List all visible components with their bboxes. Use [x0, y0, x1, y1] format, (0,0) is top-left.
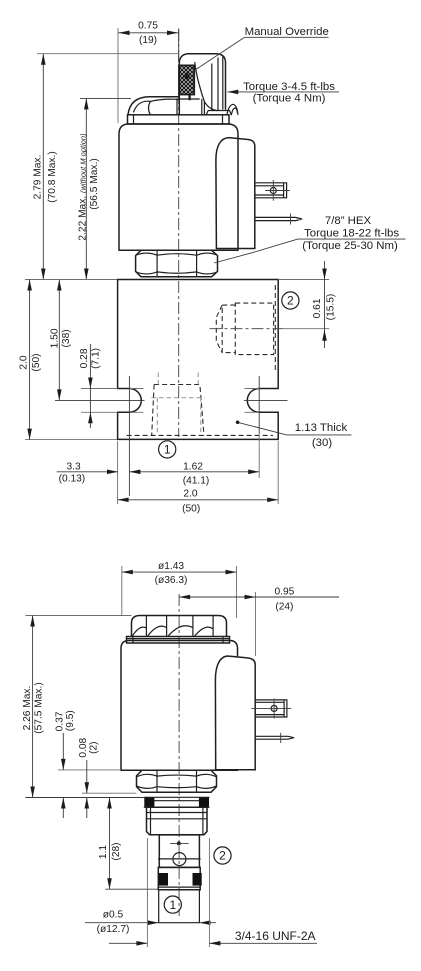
svg-text:(7.1): (7.1)	[91, 348, 102, 369]
svg-text:(38): (38)	[61, 329, 72, 347]
svg-text:(30): (30)	[312, 437, 332, 449]
svg-text:2.0: 2.0	[183, 489, 197, 500]
svg-text:(9.5): (9.5)	[65, 710, 76, 731]
svg-text:(28): (28)	[111, 842, 122, 860]
svg-text:(70.8 Max.): (70.8 Max.)	[47, 151, 58, 203]
svg-text:Torque 18-22 ft-lbs: Torque 18-22 ft-lbs	[304, 227, 399, 239]
svg-text:2.26 Max.: 2.26 Max.	[22, 686, 33, 731]
svg-text:(Torque 4 Nm): (Torque 4 Nm)	[253, 92, 326, 104]
svg-text:Torque 3-4.5 ft-lbs: Torque 3-4.5 ft-lbs	[243, 81, 335, 93]
svg-text:2.0: 2.0	[19, 355, 30, 369]
svg-text:0.95: 0.95	[274, 586, 294, 597]
svg-text:(19): (19)	[139, 35, 157, 46]
svg-text:1: 1	[164, 443, 171, 457]
svg-text:0.08: 0.08	[78, 737, 89, 757]
svg-text:0.75: 0.75	[138, 21, 158, 32]
svg-text:1: 1	[169, 898, 176, 912]
svg-text:0.61: 0.61	[312, 298, 323, 318]
svg-text:(Torque 25-30 Nm): (Torque 25-30 Nm)	[302, 240, 398, 252]
svg-text:(56.5 Max.): (56.5 Max.)	[89, 158, 100, 210]
svg-text:2.22 Max. (without M option): 2.22 Max. (without M option)	[78, 133, 89, 241]
svg-text:2.79 Max.: 2.79 Max.	[33, 155, 44, 200]
svg-text:1.50: 1.50	[50, 328, 61, 348]
svg-text:(57.5 Max.): (57.5 Max.)	[34, 682, 45, 734]
svg-text:0.28: 0.28	[79, 348, 90, 368]
svg-text:(50): (50)	[31, 353, 42, 371]
svg-text:ø0.5: ø0.5	[103, 910, 124, 921]
svg-text:0.37: 0.37	[54, 711, 65, 731]
svg-text:(24): (24)	[275, 602, 293, 613]
svg-text:(15.5): (15.5)	[326, 294, 337, 321]
svg-text:3.3: 3.3	[67, 461, 81, 472]
svg-text:3/4-16 UNF-2A: 3/4-16 UNF-2A	[235, 929, 316, 943]
svg-text:(41.1): (41.1)	[183, 476, 210, 487]
svg-text:(ø12.7): (ø12.7)	[97, 924, 130, 935]
svg-text:7/8” HEX: 7/8” HEX	[325, 215, 372, 227]
svg-text:Manual Override: Manual Override	[245, 26, 329, 38]
svg-text:1.1: 1.1	[98, 845, 109, 859]
svg-text:(50): (50)	[182, 503, 200, 514]
svg-text:2: 2	[287, 294, 294, 308]
svg-text:(0.13): (0.13)	[59, 474, 86, 485]
svg-text:(ø36.3): (ø36.3)	[155, 575, 188, 586]
svg-text:ø1.43: ø1.43	[158, 561, 184, 572]
svg-text:(2): (2)	[89, 741, 100, 753]
svg-text:2: 2	[219, 849, 226, 863]
svg-text:1.62: 1.62	[183, 461, 203, 472]
svg-text:1.13 Thick: 1.13 Thick	[295, 422, 348, 434]
